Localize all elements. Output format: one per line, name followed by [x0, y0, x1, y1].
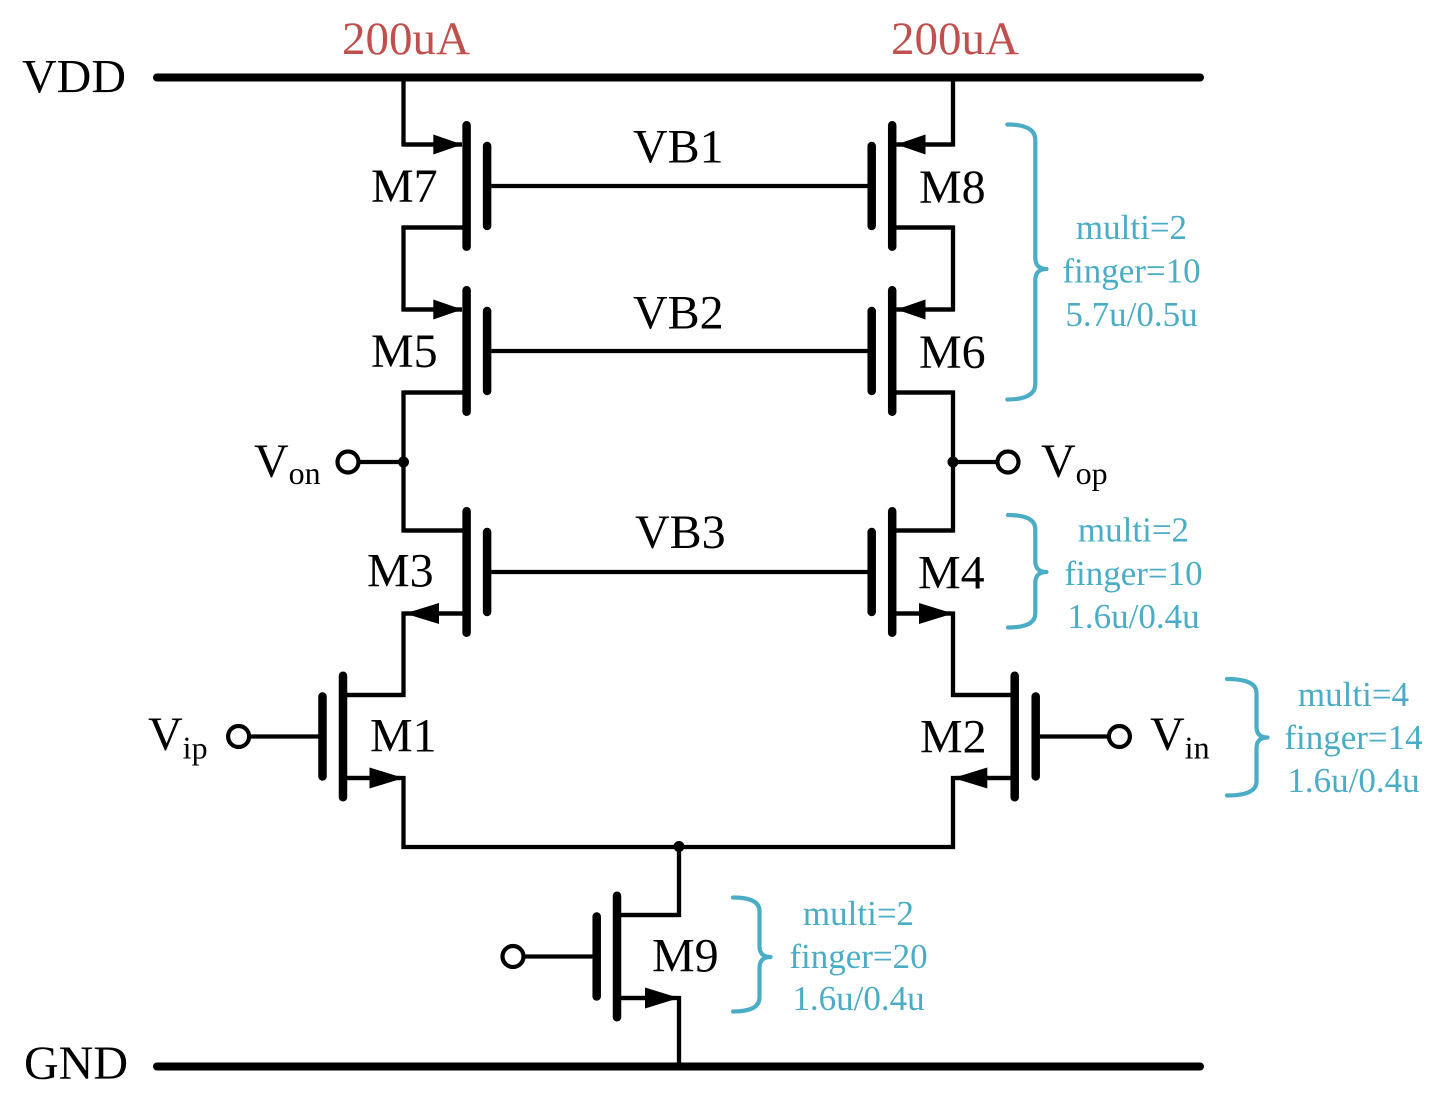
junction Von: [398, 457, 409, 468]
wire M7 drain to M5 source: [404, 228, 467, 310]
svg-text:5.7u/0.5u: 5.7u/0.5u: [1065, 295, 1197, 334]
wire M3 source to M1 drain: [343, 614, 467, 696]
label M3: [367, 545, 434, 598]
svg-text:200uA: 200uA: [342, 13, 470, 65]
current label 200uA left: [342, 13, 470, 65]
value label M9: multi=2 finger=20 1.6u/0.4u: [789, 894, 927, 1018]
svg-text:VB2: VB2: [633, 287, 724, 340]
svg-text:VB1: VB1: [633, 121, 724, 174]
value label M8/M6: multi=2 finger=10 5.7u/0.5u: [1062, 208, 1200, 334]
wire VDD to M7 source: [404, 76, 463, 145]
brace M9 group: [733, 898, 771, 1012]
label M6: [919, 326, 986, 379]
wire tail junction to M9 drain: [617, 847, 679, 915]
label M8: [919, 161, 986, 214]
svg-text:Von: Von: [254, 435, 321, 491]
transistor M3: [404, 511, 488, 633]
node Vin terminal: [1109, 726, 1130, 747]
wire VB2 gate line: [491, 349, 867, 353]
svg-text:finger=10: finger=10: [1064, 554, 1202, 593]
net label Vin: [1150, 708, 1210, 766]
junction Vop: [948, 457, 959, 468]
svg-text:M6: M6: [919, 326, 986, 379]
net label VB1: [633, 121, 724, 174]
wire VB3 gate line: [491, 570, 867, 574]
svg-text:VB3: VB3: [635, 506, 726, 559]
wire M1 gate: [251, 734, 319, 738]
svg-text:M9: M9: [652, 930, 719, 983]
wire M4 source to M2 drain: [892, 614, 1015, 696]
svg-text:Vin: Vin: [1150, 708, 1210, 766]
current label 200uA right: [891, 13, 1019, 65]
net label Von: [254, 435, 321, 491]
transistor M5: [404, 290, 488, 412]
svg-text:multi=2: multi=2: [803, 894, 914, 933]
node Von terminal: [338, 452, 359, 473]
svg-text:200uA: 200uA: [891, 13, 1019, 65]
wire VDD to M8 source: [897, 76, 954, 145]
wire M8 drain to M6 source: [892, 228, 953, 310]
svg-text:1.6u/0.4u: 1.6u/0.4u: [1287, 761, 1419, 800]
wire M1 source to tail rail to M2 source: [343, 778, 1015, 847]
svg-text:Vip: Vip: [148, 708, 208, 766]
svg-text:multi=4: multi=4: [1298, 675, 1409, 714]
net label Vip: [148, 708, 208, 766]
transistor M2: [953, 676, 1036, 798]
VDD rail: [157, 74, 1200, 82]
node Vop terminal: [998, 452, 1019, 473]
wire VB1 gate line: [491, 184, 867, 188]
brace M2 group: [1227, 679, 1268, 796]
label M5: [371, 325, 438, 378]
transistor M4: [872, 511, 953, 633]
brace M4 group: [1008, 515, 1047, 628]
svg-text:M2: M2: [920, 711, 987, 764]
svg-text:VDD: VDD: [22, 51, 126, 104]
node Vip terminal: [228, 726, 249, 747]
svg-text:M1: M1: [370, 710, 437, 763]
wire Vop tap: [953, 460, 998, 464]
wire M6 drain to node Vop to M4 drain: [892, 393, 953, 531]
svg-text:finger=10: finger=10: [1062, 252, 1200, 291]
wire M5 drain to node Von to M3 drain: [404, 393, 467, 531]
transistor M1: [323, 676, 404, 798]
svg-text:M7: M7: [371, 160, 438, 213]
svg-text:multi=2: multi=2: [1078, 511, 1189, 550]
transistor M6: [872, 290, 953, 412]
transistor M8: [872, 125, 953, 247]
label M1: [370, 710, 437, 763]
label VDD: [22, 51, 126, 104]
net label VB2: [633, 287, 724, 340]
label GND: [24, 1037, 128, 1090]
junction tail node: [674, 841, 685, 852]
wire M2 gate: [1040, 734, 1107, 738]
net label VB3: [635, 506, 726, 559]
svg-text:1.6u/0.4u: 1.6u/0.4u: [1067, 597, 1199, 636]
svg-text:M3: M3: [367, 545, 434, 598]
svg-text:M4: M4: [918, 547, 985, 600]
svg-text:M5: M5: [371, 325, 438, 378]
transistor M9: [597, 896, 679, 1018]
value label M2: multi=4 finger=14 1.6u/0.4u: [1284, 675, 1422, 800]
wire M9 source to GND: [617, 998, 679, 1067]
label M9: [652, 930, 719, 983]
GND rail: [157, 1063, 1200, 1071]
svg-text:finger=20: finger=20: [789, 937, 927, 976]
svg-text:Vop: Vop: [1041, 435, 1108, 491]
value label M4: multi=2 finger=10 1.6u/0.4u: [1064, 511, 1202, 637]
svg-text:GND: GND: [24, 1037, 128, 1090]
label M2: [920, 711, 987, 764]
wire M9 gate: [526, 954, 593, 958]
svg-text:1.6u/0.4u: 1.6u/0.4u: [792, 979, 924, 1018]
brace M8/M6 group: [1007, 125, 1046, 400]
net label Vop: [1041, 435, 1108, 491]
svg-text:M8: M8: [919, 161, 986, 214]
wire Von tap: [358, 460, 404, 464]
label M7: [371, 160, 438, 213]
label M4: [918, 547, 985, 600]
svg-text:finger=14: finger=14: [1284, 718, 1422, 757]
svg-text:multi=2: multi=2: [1076, 208, 1187, 247]
node M9 gate terminal: [503, 946, 524, 967]
transistor M7: [404, 125, 488, 247]
